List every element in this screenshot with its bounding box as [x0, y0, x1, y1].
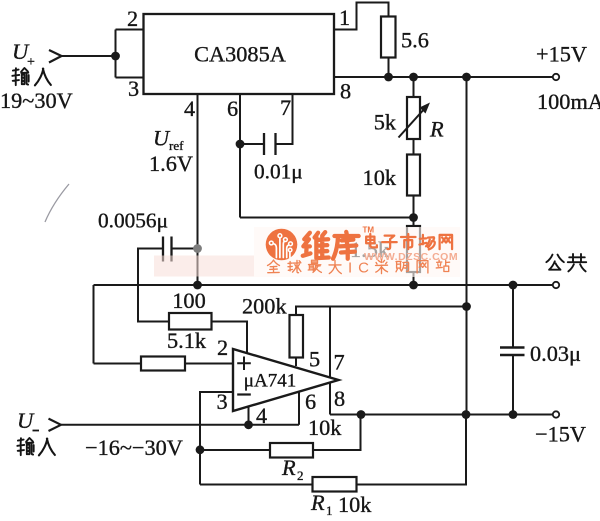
- svg-text:1.6V: 1.6V: [149, 151, 193, 176]
- potentiometer arrowhead: [420, 103, 431, 114]
- terminal -15V: [553, 411, 559, 417]
- resistor 1.5k: [407, 226, 420, 272]
- svg-text:U: U: [17, 408, 35, 433]
- svg-text:5: 5: [309, 347, 320, 372]
- wire 10k bottom: [413, 196, 415, 227]
- wire pin 3 to R1 left: [200, 392, 233, 485]
- node 5k top: [409, 73, 418, 82]
- wire 5k to 10k: [413, 139, 415, 155]
- wire cap to pin 7 IC: [276, 94, 293, 144]
- svg-text:0.01μ: 0.01μ: [254, 160, 303, 184]
- resistor 200k: [290, 315, 304, 358]
- wire R2 left: [200, 449, 270, 451]
- label 输入 top: [12, 68, 28, 85]
- wire left rail down: [93, 285, 95, 364]
- svg-text:−16~−30V: −16~−30V: [85, 435, 183, 460]
- svg-text:10k: 10k: [363, 165, 397, 190]
- svg-text:5.6: 5.6: [401, 28, 429, 53]
- node Uref cap (gray): [193, 244, 202, 253]
- wire +15V vertical x466: [466, 77, 468, 415]
- svg-text:7: 7: [334, 350, 345, 375]
- svg-text:1: 1: [326, 503, 333, 518]
- node 0.03u common: [509, 281, 518, 290]
- label 公共: [546, 255, 563, 270]
- svg-text:4: 4: [256, 403, 267, 428]
- svg-text:TM: TM: [363, 226, 375, 235]
- svg-text:100mA: 100mA: [537, 89, 600, 114]
- svg-text:1: 1: [339, 5, 350, 30]
- svg-text:+: +: [27, 55, 35, 70]
- svg-text:R: R: [310, 490, 325, 515]
- node pin4 input: [244, 420, 253, 429]
- wire pin 4 741: [248, 407, 250, 425]
- node R2 -15V: [357, 410, 366, 419]
- wire pin 2 stub: [116, 29, 144, 31]
- watermark 全球最大IC采购网站: [268, 260, 342, 274]
- wire pins 2-3 vertical: [115, 30, 117, 78]
- input arrow U+: [49, 50, 62, 63]
- wire 5.1k to pin2: [185, 363, 233, 365]
- svg-text:0.0056μ: 0.0056μ: [98, 209, 168, 233]
- node U+: [111, 52, 120, 61]
- label 输入 bottom: [17, 438, 33, 455]
- node x466 -15V: [462, 410, 471, 419]
- svg-text:6: 6: [305, 389, 316, 414]
- svg-text:7: 7: [280, 95, 291, 120]
- wire R1 bottom left: [200, 484, 313, 486]
- node Uref common: [193, 281, 202, 290]
- watermark logo: [266, 229, 298, 261]
- wire pin 3 stub: [116, 77, 144, 79]
- wire pin 6 741: [298, 392, 300, 425]
- svg-text:8: 8: [334, 386, 345, 411]
- resistor 10k upper: [407, 155, 420, 196]
- input arrow U-: [49, 419, 62, 431]
- terminal +15V: [553, 74, 559, 80]
- svg-text:CA3085A: CA3085A: [194, 42, 286, 67]
- wire pin 6 IC: [239, 94, 241, 218]
- wire 5k top: [413, 77, 415, 97]
- svg-text:2: 2: [127, 6, 138, 31]
- node pin6 cap: [236, 140, 245, 149]
- svg-text:5k: 5k: [374, 110, 397, 135]
- wire R1 right up: [357, 415, 467, 485]
- wire pin 1: [334, 3, 389, 30]
- svg-text:10k: 10k: [308, 415, 342, 440]
- wire 5.1k left: [94, 363, 142, 365]
- node 1.5k common: [409, 281, 418, 290]
- svg-text:μA741: μA741: [244, 371, 296, 392]
- op-amp U1 CA3085A box: [144, 14, 335, 94]
- svg-text:R: R: [281, 455, 296, 480]
- node +15V branch: [462, 73, 471, 82]
- potentiometer R 5k: [407, 97, 420, 139]
- resistor 5.6: [381, 17, 396, 58]
- watermark 电子市场网: [366, 234, 377, 247]
- svg-text:IC: IC: [348, 260, 375, 277]
- op-amp minus sign: [237, 393, 251, 395]
- watermark band main: [254, 227, 460, 277]
- node R2 left: [196, 445, 205, 454]
- svg-text:10k: 10k: [338, 492, 372, 517]
- watermark band left: [154, 256, 254, 277]
- wire +15V rail: [334, 76, 553, 78]
- resistor 5.1k: [141, 357, 185, 371]
- resistor 100: [169, 313, 212, 330]
- node 10k bottom: [409, 213, 418, 222]
- terminal common: [553, 282, 559, 288]
- svg-text:2: 2: [297, 468, 304, 483]
- svg-text:3: 3: [217, 389, 228, 414]
- svg-text:0.03μ: 0.03μ: [530, 341, 581, 366]
- wire 5.6 bottom: [388, 58, 390, 78]
- wire R2 right up: [313, 415, 361, 451]
- wire pin6 horizontal: [240, 217, 414, 219]
- svg-text:5.1k: 5.1k: [167, 328, 207, 353]
- svg-text:19~30V: 19~30V: [0, 88, 73, 113]
- watermark 维库: [303, 232, 329, 258]
- wire 1.5k bottom: [413, 272, 415, 285]
- wire pin 7: [329, 307, 331, 378]
- wire 200k top to +15V line: [296, 307, 467, 316]
- svg-text:100: 100: [172, 288, 205, 313]
- svg-text:−15V: −15V: [535, 422, 586, 447]
- wire pin 8 741: [329, 383, 331, 415]
- resistor R1: [313, 477, 357, 492]
- wire 100 to top edge: [212, 322, 248, 354]
- svg-text:R: R: [429, 117, 444, 142]
- node pin7 +15V: [462, 302, 471, 311]
- svg-text:4: 4: [184, 96, 195, 121]
- svg-text:+15V: +15V: [536, 42, 587, 67]
- op-amp plus sign: [237, 357, 251, 371]
- svg-text:6: 6: [227, 96, 238, 121]
- wire U- line: [61, 424, 299, 426]
- svg-text:3: 3: [128, 76, 139, 101]
- wire U+ to node: [62, 55, 116, 57]
- wire pin 5: [295, 358, 297, 367]
- wire -15V rail: [330, 414, 553, 416]
- wire pin 4 Uref: [197, 94, 199, 285]
- capacitor 0.03u: [512, 285, 514, 415]
- svg-text:8: 8: [340, 79, 351, 104]
- resistor R2: [270, 443, 313, 458]
- capacitor 0.01u: [264, 133, 276, 155]
- op-amp U2 uA741 triangle: [233, 349, 339, 411]
- node 0.03u -15V: [509, 410, 518, 419]
- svg-text:200k: 200k: [242, 294, 287, 319]
- wire common rail: [94, 284, 553, 286]
- node 5.6 bottom: [384, 73, 393, 82]
- svg-text:2: 2: [217, 335, 228, 360]
- scan artifact stroke: [45, 184, 69, 222]
- capacitor 0.0056u: [163, 237, 172, 262]
